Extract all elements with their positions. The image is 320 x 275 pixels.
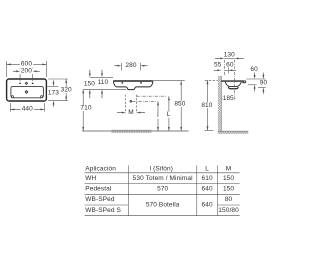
svg-text:60: 60 xyxy=(250,66,258,73)
svg-text:150: 150 xyxy=(84,81,95,88)
svg-text:110: 110 xyxy=(98,79,109,86)
svg-text:640: 640 xyxy=(202,186,213,193)
svg-text:M: M xyxy=(128,109,134,116)
svg-text:530 Totem / Minimal: 530 Totem / Minimal xyxy=(133,175,193,182)
svg-text:150/80: 150/80 xyxy=(218,207,239,214)
svg-text:150: 150 xyxy=(223,175,234,182)
svg-text:150: 150 xyxy=(223,186,234,193)
svg-text:810: 810 xyxy=(201,102,212,109)
svg-text:320: 320 xyxy=(61,87,72,94)
svg-text:55: 55 xyxy=(214,62,222,69)
svg-text:90: 90 xyxy=(260,79,268,86)
svg-text:I (Sifón): I (Sifón) xyxy=(149,165,173,172)
svg-text:570: 570 xyxy=(157,186,168,193)
svg-text:WB-SPed S: WB-SPed S xyxy=(85,207,121,214)
svg-text:185: 185 xyxy=(223,95,234,102)
svg-text:I: I xyxy=(157,112,159,119)
svg-text:WH: WH xyxy=(85,175,96,182)
svg-text:610: 610 xyxy=(202,175,213,182)
svg-text:WB-SPed: WB-SPed xyxy=(85,196,115,203)
svg-text:M: M xyxy=(226,165,232,172)
svg-text:200: 200 xyxy=(21,68,32,75)
svg-text:Aplicación: Aplicación xyxy=(85,166,116,173)
svg-text:L: L xyxy=(205,165,209,172)
svg-text:L: L xyxy=(167,111,171,118)
svg-text:600: 600 xyxy=(21,61,32,68)
svg-text:440: 440 xyxy=(22,106,33,113)
svg-text:280: 280 xyxy=(125,62,136,69)
svg-text:710: 710 xyxy=(80,105,91,112)
svg-text:640: 640 xyxy=(202,202,213,209)
svg-text:850: 850 xyxy=(174,100,185,107)
svg-text:173: 173 xyxy=(48,89,59,96)
svg-text:60: 60 xyxy=(226,61,234,68)
svg-text:80: 80 xyxy=(225,196,233,203)
svg-text:Pedestal: Pedestal xyxy=(85,186,112,193)
svg-text:570 Botella: 570 Botella xyxy=(146,202,180,209)
svg-text:130: 130 xyxy=(224,51,235,58)
